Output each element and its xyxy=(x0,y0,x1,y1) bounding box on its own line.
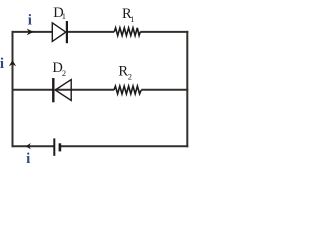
wire left vertical xyxy=(12,31,14,147)
svg-text:2: 2 xyxy=(62,68,66,78)
wire middle centre segment xyxy=(55,89,114,91)
svg-text:1: 1 xyxy=(62,11,66,21)
resistor R2 zigzag xyxy=(114,86,141,94)
wire top right segment xyxy=(140,31,188,33)
wire bottom right segment xyxy=(60,145,188,147)
diode D1 cathode bar xyxy=(66,21,68,43)
wire top left segment xyxy=(12,31,53,33)
svg-text:i: i xyxy=(26,151,30,167)
svg-text:1: 1 xyxy=(130,14,134,24)
svg-text:2: 2 xyxy=(128,72,132,82)
battery short plate xyxy=(59,143,62,151)
svg-text:i: i xyxy=(0,56,4,72)
battery long plate xyxy=(53,138,55,155)
wire right vertical xyxy=(186,31,188,147)
resistor R1 zigzag xyxy=(114,28,140,36)
svg-text:i: i xyxy=(28,13,32,29)
arrow current bottom (left) xyxy=(26,143,31,149)
arrow current top (right) xyxy=(27,29,34,36)
arrow current left (up) xyxy=(9,60,16,66)
wire bottom left segment xyxy=(12,145,55,147)
diode D2 cathode bar xyxy=(52,78,54,102)
diode D1 triangle xyxy=(52,23,66,42)
wire middle left segment xyxy=(12,89,54,91)
wire middle right segment xyxy=(141,89,188,91)
wire top middle segment xyxy=(67,31,114,33)
diode D2 triangle xyxy=(55,80,71,101)
